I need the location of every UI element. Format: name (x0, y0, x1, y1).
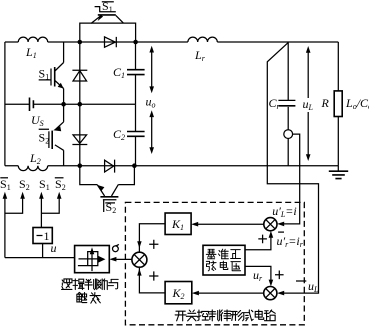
svg-text:R: R (321, 96, 330, 110)
wire ref to top mult (245, 235, 271, 250)
wire bottom mult to K2 (195, 292, 264, 294)
transistor S2 (IGBT) (39, 104, 64, 166)
resistor R (337, 42, 339, 166)
node dot top wire left (78, 40, 83, 45)
wire S1bar bypass loop (80, 23, 136, 42)
svg-text:Lo/Co: Lo/Co (345, 96, 369, 111)
wire K1 to summer (139, 224, 165, 252)
wire ref to bottom mult (245, 266, 271, 283)
multiplier bottom (264, 287, 277, 300)
diode D4 (right, on bottom bus) (105, 160, 115, 173)
box reference sine (203, 245, 245, 275)
svg-text:u′L=i: u′L=i (272, 204, 297, 219)
box -1 inverter (33, 228, 52, 244)
box K2 (165, 282, 192, 304)
box hysteresis trigger (75, 246, 110, 273)
inductor L1 (18, 37, 47, 42)
wire S2bar bypass loop (80, 166, 135, 185)
diode D2 (down) (72, 135, 87, 145)
current sensor circle (284, 130, 293, 139)
capacitor Cr branch (287, 42, 289, 166)
inductor Lr (188, 37, 217, 42)
uL annotation arrow (307, 50, 309, 158)
wire K2 to summer (139, 268, 165, 293)
node dot top wire right (133, 40, 138, 45)
svg-text:1: 1 (44, 229, 50, 243)
dashed control box (125, 202, 304, 324)
svg-text:u′r=ir: u′r=ir (277, 234, 304, 249)
ground (337, 166, 339, 171)
wire uL feedback: slant from top node down, under bus, to bottom right (267, 43, 318, 294)
diode D1 (up) (72, 70, 87, 81)
wire middle rail y=104.2 (5, 103, 136, 105)
uo annotation arrows (151, 50, 153, 151)
text 逻辑判断与 / 触发 (62, 279, 119, 303)
node dot bottom wire left (78, 163, 83, 168)
transistor S1 (IGBT) (39, 42, 64, 104)
transistor S2bar (IGBT horizontal) (100, 196, 118, 198)
summing junction circle (132, 252, 147, 267)
node dot bottom wire right (132, 163, 137, 168)
gate drive arrows S1bar S2 S1 S2bar (5, 196, 59, 258)
capacitor C2 (135, 104, 137, 166)
multiplier top (264, 218, 277, 231)
node dot mid rail S leg (61, 102, 66, 107)
wire sensor output (280, 134, 300, 224)
text 开关控制律形成电路 (175, 310, 275, 321)
wire left source rail (4, 42, 6, 166)
node dot mid rail diode leg (78, 102, 83, 107)
wire top mult to K1 (194, 223, 264, 225)
box K1 (165, 213, 191, 235)
wire top bus y=42 (5, 41, 338, 43)
diode D3 (right, on top bus) (105, 37, 117, 47)
wire diode rail x=79.8 (79, 42, 81, 166)
wire u into trigger (5, 257, 75, 259)
svg-text:u: u (51, 241, 57, 255)
source US capacitor symbol (30, 98, 34, 112)
signs around multipliers (258, 235, 267, 244)
sigma output arrow into trigger (112, 258, 132, 260)
wire bottom bus y=165.7 (5, 165, 338, 167)
transistor S1bar (IGBT horizontal) (98, 14, 116, 16)
inductor L2 (18, 166, 47, 171)
capacitor C1 (135, 42, 137, 104)
